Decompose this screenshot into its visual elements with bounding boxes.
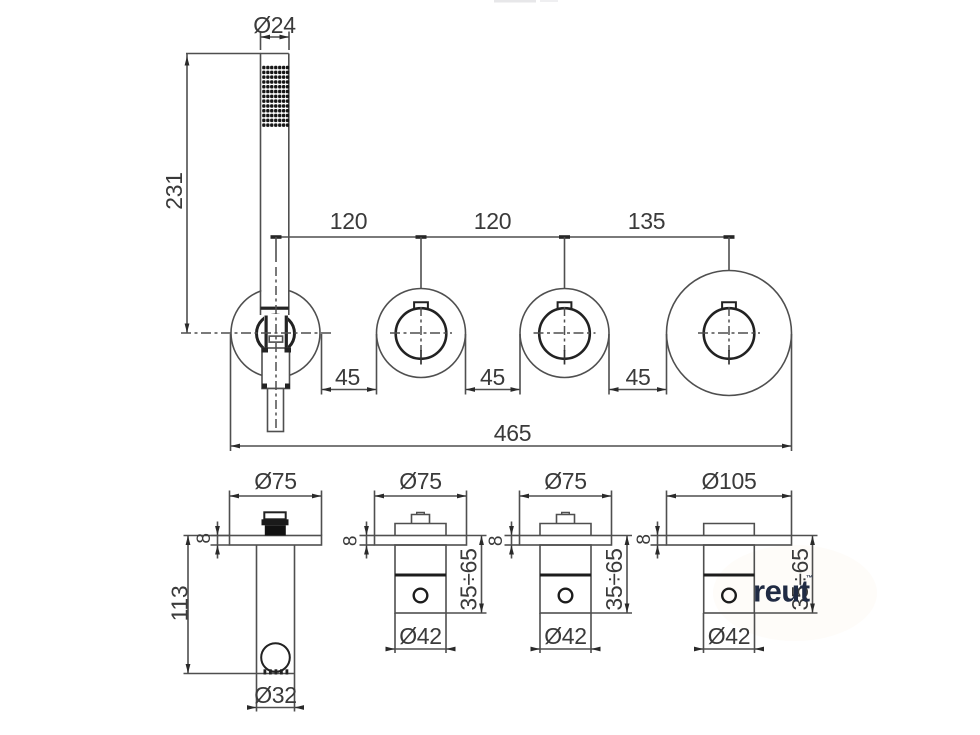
svg-text:Ø42: Ø42	[544, 623, 587, 649]
dimension 465 overall width	[230, 334, 232, 451]
spray face dot grid	[262, 66, 289, 127]
dimension 35÷65 (rough-in depth)	[467, 535, 487, 537]
valve body below plate	[540, 545, 591, 613]
wand joint dark band	[261, 307, 289, 310]
dimension 45 (gap 2)	[465, 334, 467, 395]
dimension 8 (plate thickness)	[360, 535, 375, 537]
extension stubs from dim line to circles	[275, 237, 277, 262]
dimension 45 (gap 1)	[321, 334, 323, 395]
valve body below plate	[395, 545, 446, 613]
svg-text:35÷65: 35÷65	[456, 548, 482, 610]
valve body below plate	[704, 545, 755, 613]
svg-text:Ø42: Ø42	[399, 623, 442, 649]
dimension 231 (wand top to centerline)	[186, 53, 261, 55]
body screw hole	[559, 589, 573, 603]
cropped mark at top edge	[494, 0, 536, 3]
svg-text:35÷65: 35÷65	[601, 548, 627, 610]
svg-text:113: 113	[167, 586, 193, 622]
dimension Ø42	[539, 613, 541, 653]
dimension &#216;105	[666, 491, 668, 536]
valve inner circle (Ø42 handle)	[704, 308, 755, 359]
handle top tab	[414, 302, 428, 308]
hand shower wand (front view)	[261, 54, 288, 308]
valve inner circle (Ø42 handle)	[396, 308, 447, 359]
dimension 35÷65 (rough-in depth)	[612, 535, 633, 537]
cartridge collar above plate	[704, 524, 755, 536]
dimension Ø42	[394, 613, 396, 653]
dimension Ø32	[256, 674, 258, 712]
dimension Ø24 of wand	[260, 32, 262, 51]
valve crosshair centerlines	[390, 332, 452, 334]
svg-text:45: 45	[626, 364, 651, 390]
svg-text:Ø105: Ø105	[701, 468, 756, 494]
dimension &#216;75	[229, 491, 231, 536]
svg-text:™: ™	[806, 575, 813, 582]
wall plate (side view 1)	[230, 536, 322, 546]
body separation thick line	[704, 574, 755, 577]
svg-text:Ø32: Ø32	[254, 682, 297, 708]
handle knob stub	[412, 515, 430, 524]
svg-text:Ø75: Ø75	[399, 468, 442, 494]
holder outlet black block	[265, 525, 286, 535]
wand circle (bottom view of handle)	[261, 643, 290, 672]
cartridge collar above plate	[395, 524, 446, 536]
holder outlet dark band	[262, 519, 289, 525]
valve crosshair centerlines	[698, 332, 760, 334]
svg-text:45: 45	[335, 364, 360, 390]
valve trim outer circle at x=729	[667, 271, 792, 396]
wall plate (side view)	[667, 536, 792, 546]
cartridge collar above plate	[540, 524, 591, 536]
handle top tab	[722, 302, 736, 308]
valve trim outer circle at x=564.5	[520, 289, 609, 378]
svg-text:8: 8	[194, 533, 215, 543]
handle top tab	[558, 302, 572, 308]
holder centerline horizontal	[181, 332, 331, 334]
svg-text:465: 465	[494, 420, 531, 446]
svg-text:231: 231	[161, 172, 187, 209]
wall plate (side view)	[375, 536, 467, 546]
holder outlet upper rect	[264, 512, 285, 519]
holder escutcheon circle (left, Ø75)	[231, 289, 320, 378]
top dimension line 120 / 120 / 135	[276, 236, 729, 238]
holder clamp bars	[265, 316, 268, 352]
valve crosshair centerlines	[534, 332, 596, 334]
hand shower tube below plate	[256, 545, 258, 674]
svg-text:45: 45	[480, 364, 505, 390]
dimension 8 (plate thickness)	[211, 535, 230, 537]
dimension &#216;75	[374, 491, 376, 536]
body screw hole	[722, 589, 736, 603]
dimension Ø42	[703, 613, 705, 653]
dimension 8 (plate thickness)	[505, 535, 520, 537]
holder clip marks	[264, 669, 267, 674]
svg-text:8: 8	[486, 536, 507, 546]
svg-text:120: 120	[330, 208, 367, 234]
dimension 35÷65 (rough-in depth)	[792, 535, 818, 537]
svg-text:Ø42: Ø42	[708, 623, 751, 649]
faint cream smudge behind watermark	[713, 545, 877, 641]
body screw hole	[414, 589, 428, 603]
holder ring around wand	[257, 315, 295, 353]
wand mid housing below holder	[262, 348, 290, 389]
valve trim outer circle at x=421	[377, 289, 466, 378]
wall plate (side view)	[520, 536, 612, 546]
wand tail	[268, 389, 284, 432]
holder front clip small rect	[269, 336, 282, 342]
svg-text:120: 120	[474, 208, 511, 234]
svg-text:135: 135	[628, 208, 665, 234]
svg-text:Ø75: Ø75	[254, 468, 297, 494]
svg-text:8: 8	[634, 534, 655, 544]
dimension &#216;75	[519, 491, 521, 536]
svg-text:8: 8	[341, 536, 362, 546]
svg-text:Ø75: Ø75	[544, 468, 587, 494]
handle knob stub	[557, 515, 575, 524]
body separation thick line	[395, 574, 446, 577]
svg-text:reut: reut	[753, 574, 810, 609]
wand vertical centerline	[275, 267, 277, 428]
dimension 45 (gap 3)	[608, 334, 610, 395]
dimension 8 (plate thickness)	[651, 535, 667, 537]
body separation thick line	[540, 574, 591, 577]
valve inner circle (Ø42 handle)	[539, 308, 590, 359]
svg-text:Ø24: Ø24	[253, 12, 296, 38]
dimension 113	[184, 535, 230, 537]
